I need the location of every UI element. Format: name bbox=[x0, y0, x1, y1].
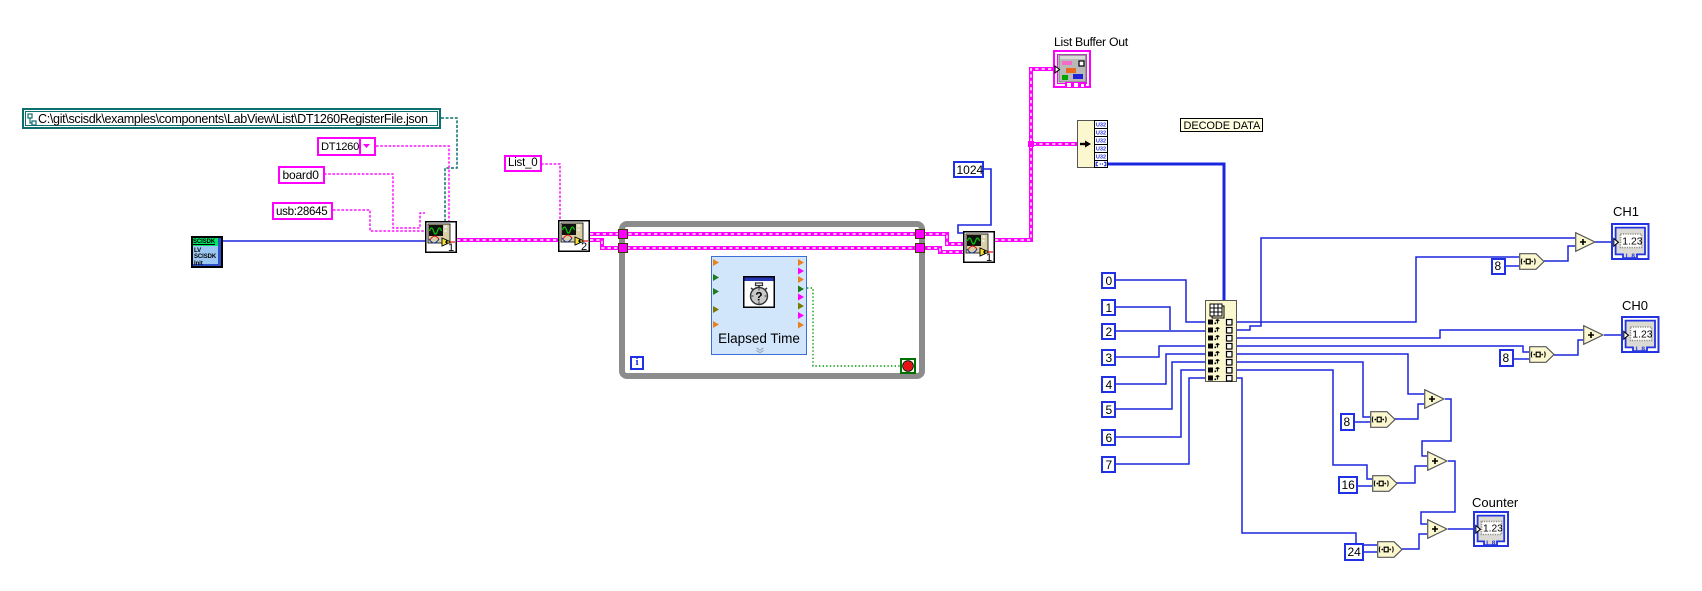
numeric constant 8 (CH0 shift) bbox=[1499, 349, 1514, 367]
wire shift4 to adder4 bbox=[1396, 466, 1427, 483]
indicator CH0 bbox=[1621, 316, 1660, 353]
numeric constant 8 (middle shift) bbox=[1340, 413, 1355, 431]
svg-text:I 8: I 8 bbox=[1636, 346, 1646, 353]
wire adder3 to adder4 bbox=[1422, 399, 1451, 456]
wire shift1 to adder1 bbox=[1544, 246, 1575, 261]
input arrows bbox=[712, 257, 722, 356]
2D array grid glyph bbox=[1210, 304, 1222, 316]
path constant DT1260RegisterFile.json bbox=[22, 108, 441, 129]
numeric constant 16 bbox=[1338, 476, 1358, 494]
svg-text:1.23: 1.23 bbox=[1622, 237, 1642, 248]
wire index row4 to shift2 bbox=[1237, 346, 1529, 352]
wire adder4 to adder5 bbox=[1421, 461, 1455, 524]
wire const 8 to shift2 bbox=[1513, 358, 1529, 360]
wire shift5 to adder5 bbox=[1402, 534, 1427, 549]
indicator List Buffer Out (cluster icon) bbox=[1053, 50, 1091, 88]
wire adder1 to CH1 bbox=[1595, 241, 1613, 243]
wire const 3 to index row4 bbox=[1116, 346, 1205, 357]
wire index row7 to shift4 bbox=[1237, 370, 1372, 479]
wire branch to unbundle (pink reference) bbox=[1031, 142, 1077, 146]
wire DT1260 to node1 (pink string) bbox=[376, 146, 449, 221]
svg-text:1.23: 1.23 bbox=[1483, 524, 1503, 535]
wire const 6 to index row7 bbox=[1116, 370, 1205, 437]
wire node2 upper out through loop to node3 (pink reference) bbox=[590, 234, 963, 244]
svg-text:U32: U32 bbox=[1096, 155, 1106, 161]
svg-text:U32: U32 bbox=[1096, 123, 1106, 129]
label List Buffer Out bbox=[1054, 35, 1128, 49]
logical shift node (middle 8) bbox=[1370, 411, 1396, 428]
while loop frame bbox=[619, 221, 925, 379]
wire unbundle array out to index array (blue array) bbox=[1108, 164, 1224, 300]
wire node1 to node2 (pink reference) bbox=[457, 238, 558, 242]
wire const 2 to index row2/3 bbox=[1116, 330, 1205, 332]
numeric constant 7 bbox=[1101, 456, 1116, 473]
add node (CH0) bbox=[1583, 325, 1604, 345]
numeric constant 4 bbox=[1101, 376, 1116, 393]
numeric constant 0 bbox=[1101, 272, 1116, 289]
svg-text:U32: U32 bbox=[1096, 131, 1106, 137]
loop stop condition terminal bbox=[900, 358, 916, 374]
add node (16 combine) bbox=[1427, 451, 1448, 471]
wire const 24 to shift5 bbox=[1363, 551, 1377, 553]
VI node 2 (scisdk set param) bbox=[558, 220, 590, 252]
wire const 8 to shift3 bbox=[1354, 421, 1370, 423]
string constant List_0 bbox=[504, 155, 542, 172]
node caption bbox=[712, 331, 806, 346]
VI node 3 (scisdk read data) bbox=[963, 231, 995, 263]
logical shift node (24) bbox=[1377, 541, 1403, 558]
wire elapsed-time to stop button (green boolean) bbox=[807, 288, 900, 366]
wire adder5 to Counter bbox=[1448, 528, 1475, 530]
wire index row6 to shift3 bbox=[1237, 362, 1370, 417]
numeric constant 2 bbox=[1101, 323, 1116, 340]
wire node2 lower out through loop to node3 (pink reference) bbox=[590, 240, 963, 252]
wire board0 to node1 (pink string) bbox=[324, 174, 425, 228]
wire const 0 to index row1 bbox=[1116, 280, 1205, 322]
indicator Counter bbox=[1473, 511, 1509, 547]
add node (counter combine) bbox=[1427, 519, 1448, 539]
numeric constant 6 bbox=[1101, 429, 1116, 446]
wire node3 out up to List Buffer Out (pink reference) bbox=[995, 69, 1054, 240]
string constant board0 bbox=[278, 166, 325, 184]
svg-text:1: 1 bbox=[986, 252, 992, 263]
svg-text:2: 2 bbox=[581, 241, 587, 252]
add node (row5+shift3) bbox=[1424, 389, 1445, 409]
loop tunnel upper-right bbox=[915, 229, 925, 239]
add node (CH1) bbox=[1575, 232, 1596, 252]
numeric constant 1024 bbox=[953, 161, 984, 178]
index array node bbox=[1205, 300, 1237, 382]
wire shift2 to adder2 bbox=[1554, 340, 1583, 355]
wire 1024 to node3 (blue) bbox=[958, 169, 991, 233]
SCISDK LV Init node bbox=[191, 236, 223, 268]
Elapsed Time express VI bbox=[711, 256, 807, 355]
svg-text:?: ? bbox=[755, 290, 762, 304]
logical shift node (CH1) bbox=[1519, 253, 1545, 270]
wire adder2 to CH0 bbox=[1604, 334, 1623, 336]
wire const 8 to shift1 bbox=[1505, 265, 1519, 267]
combo constant DT1260 bbox=[317, 137, 376, 156]
numeric constant 24 bbox=[1344, 543, 1364, 561]
wire index row2 to adder1 bbox=[1237, 238, 1575, 330]
svg-text:U32: U32 bbox=[1096, 147, 1106, 153]
wire shift3 to adder3 bbox=[1393, 404, 1424, 419]
numeric constant 8 (CH1 shift) bbox=[1491, 258, 1506, 275]
logical shift node (CH0) bbox=[1529, 346, 1555, 363]
wire const 1 to index row2 bbox=[1116, 307, 1170, 330]
index input glyphs and element output squares bbox=[1205, 300, 1237, 382]
wire index row3 to adder2 bbox=[1237, 330, 1583, 338]
wire path-constant to node1 (teal dashed) bbox=[441, 118, 457, 221]
wire SCISDK Init to node1 (blue) bbox=[223, 240, 425, 242]
numeric constant 3 bbox=[1101, 349, 1116, 366]
wire index row8 to shift5 bbox=[1237, 378, 1377, 545]
free label DECODE DATA bbox=[1180, 118, 1263, 132]
svg-text:I 8: I 8 bbox=[1486, 540, 1496, 547]
wire const 5 to index row6 bbox=[1116, 362, 1205, 409]
loop tunnel lower-left bbox=[618, 243, 628, 253]
svg-text:U32: U32 bbox=[1096, 139, 1106, 145]
svg-text:I 8: I 8 bbox=[1626, 253, 1636, 260]
VI node 1 (scisdk open) bbox=[425, 221, 457, 253]
wire usb:28645 to node1 (pink string) bbox=[333, 210, 425, 231]
numeric constant 5 bbox=[1101, 401, 1116, 418]
stopwatch icon bbox=[743, 276, 775, 308]
numeric constant 1 bbox=[1101, 299, 1116, 316]
wire const 16 to shift4 bbox=[1357, 485, 1372, 487]
unbundle by name node (U32 x5 + array) bbox=[1077, 120, 1108, 168]
label Counter bbox=[1472, 495, 1518, 510]
svg-text:1: 1 bbox=[448, 242, 454, 253]
label CH1 bbox=[1613, 204, 1639, 219]
output arrows bbox=[796, 257, 806, 356]
string constant usb:28645 bbox=[272, 202, 333, 220]
label CH0 bbox=[1622, 298, 1648, 313]
wire index row1 to shift1 bbox=[1237, 257, 1519, 322]
svg-text:1.23: 1.23 bbox=[1632, 330, 1652, 341]
loop tunnel lower-right bbox=[915, 243, 925, 253]
wire const 7 to index row8 bbox=[1116, 378, 1205, 464]
indicator CH1 bbox=[1611, 223, 1650, 260]
wire List_0 to node2 (pink string) bbox=[541, 164, 560, 220]
wire const 4 to index row5 bbox=[1116, 354, 1205, 384]
junction node3-out / unbundle branch bbox=[1028, 141, 1034, 147]
logical shift node (16) bbox=[1372, 475, 1398, 492]
loop tunnel upper-left bbox=[618, 229, 628, 239]
iteration terminal i bbox=[630, 356, 644, 370]
wire index row5 to adder3 bbox=[1237, 354, 1424, 394]
